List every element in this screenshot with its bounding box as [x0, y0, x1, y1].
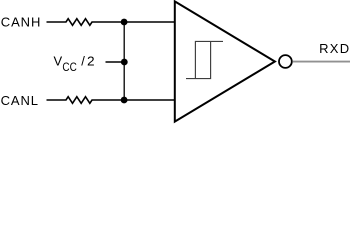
svg-text:CANL: CANL — [1, 93, 39, 108]
svg-text:/: / — [81, 53, 85, 68]
svg-text:CANH: CANH — [1, 15, 41, 30]
svg-text:CC: CC — [62, 60, 76, 74]
svg-text:2: 2 — [87, 53, 95, 68]
svg-text:RXD: RXD — [319, 41, 350, 56]
svg-text:V: V — [54, 53, 63, 68]
